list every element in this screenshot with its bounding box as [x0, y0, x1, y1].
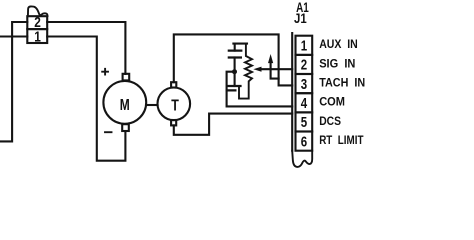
connector P1 torn top edge [28, 6, 48, 16]
svg-text:2: 2 [301, 58, 307, 74]
svg-text:DCS: DCS [319, 116, 341, 128]
svg-text:COM: COM [319, 97, 345, 109]
connector J1 pin 6 box [296, 132, 313, 151]
capacitor C2 plates [227, 86, 241, 90]
tach T1 top terminal [171, 82, 176, 87]
capacitor C1 plates [229, 51, 242, 58]
tach T1 bottom terminal [171, 120, 176, 125]
wire: P1 pin2 left lead down to left edge [0, 22, 27, 141]
junction dot node A [232, 69, 237, 74]
svg-text:AUX IN: AUX IN [319, 39, 358, 51]
svg-text:TACH IN: TACH IN [319, 78, 365, 90]
tach T1 body [158, 88, 191, 121]
svg-text:SIG IN: SIG IN [319, 58, 355, 70]
adjust arrowhead (up) [268, 54, 273, 63]
connector J1 pin 5 box [296, 112, 313, 131]
connector P1 pin 2 box [27, 16, 47, 29]
svg-text:4: 4 [301, 96, 307, 112]
connector J1 pin 4 box [296, 93, 313, 112]
connector J1 body rail [291, 33, 293, 151]
motor M1 top terminal [123, 74, 130, 81]
svg-text:5: 5 [301, 115, 307, 131]
svg-text:3: 3 [301, 77, 307, 93]
pot R1 top bar [233, 43, 247, 45]
svg-text:1: 1 [301, 39, 307, 55]
pot R1 wiper arrowhead [253, 67, 261, 72]
pot R1 element zigzag [239, 44, 252, 99]
svg-text:6: 6 [301, 134, 307, 150]
plus sign [102, 69, 108, 75]
minus sign [105, 131, 112, 133]
svg-text:T: T [171, 97, 179, 114]
connector J1 pin 2 box [296, 55, 313, 74]
pot R1 wiper line to J1 pin2 SIG IN [261, 68, 292, 70]
motor M1 bottom terminal [122, 124, 129, 131]
wire: tach bottom to J1 COM [174, 114, 292, 135]
motor M1 body [103, 81, 146, 124]
adjust arrow line [271, 62, 279, 78]
wire: left edge stub to P1 pin1 [0, 35, 27, 37]
capacitor C1 top lead [234, 44, 236, 51]
svg-text:M: M [120, 97, 130, 114]
connector J1 torn bottom edge [292, 151, 312, 167]
capacitor C1 bottom lead [234, 58, 236, 87]
shaft M1-T1 [146, 104, 157, 106]
connector J1 pin 1 box [296, 36, 313, 55]
connector P1 pin 1 box [27, 29, 47, 43]
svg-text:RT LIMIT: RT LIMIT [319, 135, 363, 147]
svg-text:J1: J1 [294, 11, 307, 26]
wire: node A tee to J1 pin4 COM [227, 72, 293, 107]
svg-text:1: 1 [34, 28, 41, 45]
wire: tach top to J1 pin3 TACH IN [174, 34, 292, 85]
connector J1 pin 3 box [296, 74, 313, 93]
wire: P1 pin1 to motor - terminal [47, 37, 125, 161]
wire: P1 pin2 to motor + terminal [47, 22, 125, 74]
